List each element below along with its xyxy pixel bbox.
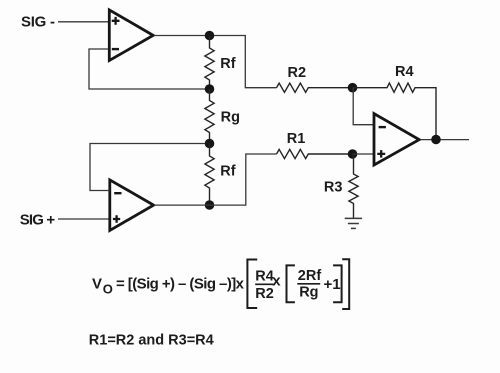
svg-text:SIG +: SIG + [20,212,56,229]
wire U2 output to R1 [154,154,277,205]
formula fraction 2Rf/Rg [297,268,321,301]
formula outer bracket open [247,260,257,309]
wire N6 to U3 + input [353,153,375,155]
wire U1 feedback to node N2 [89,49,205,89]
resistor Rg [205,89,240,144]
resistor R2 [277,65,353,92]
formula Vo main line [92,276,245,297]
svg-text:V: V [92,276,102,293]
wire U2 feedback to node N3 [90,144,205,191]
svg-text:R1=R2 and R3=R4: R1=R2 and R3=R4 [89,332,214,348]
op-amp U3 [374,114,419,165]
svg-text:R4: R4 [255,269,274,285]
node N6 R1/R3 junction [348,149,358,159]
wire U3 output [421,139,470,141]
node SIG- label [21,14,55,31]
resistor R1 [277,131,353,158]
resistor Rf top [205,36,236,90]
node N2 Rf/Rg junction [205,84,215,94]
svg-text:R1: R1 [287,131,306,147]
svg-text:SIG -: SIG - [21,14,55,31]
wire N5 to U3 - input [353,88,374,125]
formula fraction R4/R2 [255,269,274,302]
wire SIG+ to U2 + input [58,218,110,220]
node N4 U2 output [205,200,215,210]
svg-text:Rf: Rf [220,164,235,180]
op-amp U2 [110,180,154,231]
ground [345,218,362,228]
node N5 R2/R4 junction [348,83,358,93]
node N3 Rg/Rf junction [205,139,215,149]
svg-text:= [(Sig +) – (Sig –)]x: = [(Sig +) – (Sig –)]x [116,276,245,293]
svg-text:Rf: Rf [220,56,235,72]
resistor R3 [324,154,358,218]
node N1 U1 output [205,31,215,41]
svg-text:R3: R3 [324,180,343,196]
note R1=R2 and R3=R4 [89,332,214,348]
svg-text:O: O [103,282,113,297]
svg-text:2Rf: 2Rf [298,268,322,284]
op-amp U1 [109,10,153,61]
node N7 output [431,135,441,145]
svg-text:R2: R2 [255,286,274,302]
svg-text:x: x [272,272,281,289]
wire SIG- to U1 + input [58,21,108,23]
formula outer bracket close [342,259,349,309]
svg-text:Rg: Rg [299,285,318,301]
formula inner bracket close [333,265,342,302]
formula multiply x [272,272,281,289]
svg-text:Rg: Rg [221,110,240,126]
resistor Rf bottom [205,144,236,206]
node SIG+ label [20,212,56,229]
formula +1 [324,276,341,293]
wire U1 output to R2 [154,36,277,88]
svg-text:R4: R4 [395,64,414,80]
resistor R4 [353,64,437,140]
formula inner bracket open [287,265,295,302]
svg-text:+1: +1 [324,276,341,293]
svg-text:R2: R2 [288,65,307,81]
